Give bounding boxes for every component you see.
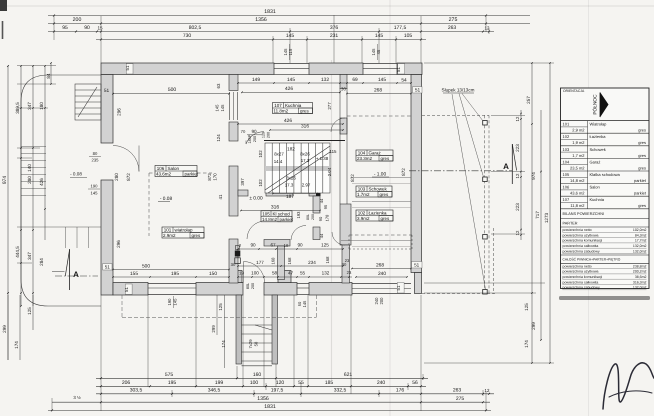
svg-text:8x26: 8x26 (300, 152, 310, 157)
svg-text:103: 103 (358, 187, 366, 192)
svg-text:444,5: 444,5 (15, 246, 20, 258)
right dimension column 257/974/299 (531, 63, 533, 363)
kitchen 187 dim (273, 193, 317, 195)
svg-text:55: 55 (300, 271, 306, 276)
svg-text:132,0m2: 132,0m2 (633, 249, 647, 253)
svg-text:51: 51 (105, 265, 111, 270)
svg-text:200: 200 (253, 136, 257, 142)
section marker A right (511, 144, 513, 184)
svg-text:107: 107 (563, 197, 570, 202)
svg-text:parkiet: parkiet (634, 178, 647, 183)
external entry stairs at bottom with rails (236, 295, 242, 364)
top dimension row 95/90/15/802.5/376/177.5/263/12 (48, 31, 494, 33)
svg-text:284: 284 (39, 258, 44, 266)
right dimension column 12/223/12/223/12 (520, 110, 522, 240)
right extension lines (424, 62, 554, 64)
interior window between salon and kitchen wall (229, 92, 231, 120)
interior wall: kitchen bottom / stair wall y140-143 (264, 140, 345, 142)
svg-text:125: 125 (524, 303, 529, 311)
salon bottom dims 500 / 155 195 150 (113, 269, 229, 271)
svg-text:powierzchnia netto: powierzchnia netto (563, 228, 592, 232)
svg-text:107: 107 (274, 103, 282, 108)
bottom dimension row 1831 (48, 409, 491, 411)
svg-text:102: 102 (258, 150, 263, 158)
svg-text:3 ½: 3 ½ (73, 395, 81, 400)
interior wall: kitchen-hall wall y190-196 with door (238, 190, 248, 196)
svg-text:19: 19 (239, 271, 244, 276)
svg-text:2.9m2: 2.9m2 (163, 233, 176, 238)
svg-text:14.8m2: 14.8m2 (262, 217, 278, 222)
svg-text:132,0m2: 132,0m2 (633, 286, 647, 290)
svg-text:346,5: 346,5 (208, 388, 221, 394)
svg-text:17,7m2: 17,7m2 (635, 239, 647, 243)
svg-text:140: 140 (27, 164, 32, 172)
svg-text:223: 223 (515, 203, 520, 211)
svg-text:A: A (503, 162, 509, 171)
salon top dim 500 (113, 93, 229, 95)
svg-text:gres: gres (380, 192, 390, 197)
svg-text:1273: 1273 (544, 212, 549, 223)
svg-text:234: 234 (308, 260, 316, 265)
wall: top exterior wall segment left (salon/kitchen) (101, 63, 274, 75)
svg-text:872: 872 (207, 173, 212, 181)
svg-text:105: 105 (404, 33, 413, 39)
bottom dimension row 1356 (101, 401, 421, 403)
svg-text:powierzchnia netto: powierzchnia netto (563, 264, 592, 268)
svg-text:100: 100 (251, 271, 259, 276)
svg-text:177,5: 177,5 (394, 25, 407, 31)
right dimension column 717 (540, 110, 542, 340)
svg-text:193: 193 (296, 211, 301, 219)
svg-text:parkiet: parkiet (185, 172, 199, 177)
svg-text:155: 155 (130, 271, 138, 277)
svg-text:50: 50 (254, 341, 259, 346)
svg-text:Wiatrołap: Wiatrołap (590, 122, 608, 127)
svg-text:195: 195 (168, 380, 177, 386)
svg-text:299: 299 (211, 325, 216, 333)
svg-text:120: 120 (276, 380, 285, 386)
svg-text:177: 177 (256, 260, 264, 265)
svg-text:106: 106 (157, 166, 165, 171)
svg-text:19: 19 (284, 243, 289, 248)
room label 103 Schowek (356, 186, 392, 197)
svg-text:95: 95 (323, 204, 328, 209)
svg-text:115: 115 (330, 149, 338, 154)
svg-text:347: 347 (27, 102, 32, 110)
svg-text:2.04: 2.04 (327, 167, 332, 176)
wall: top exterior wall segment middle (kitchen-garage) (309, 63, 363, 75)
svg-text:500: 500 (168, 87, 177, 93)
svg-text:872: 872 (401, 168, 406, 176)
svg-text:45: 45 (376, 49, 381, 54)
svg-text:240: 240 (378, 271, 386, 277)
bottom interior dim rows near entry (238, 248, 343, 250)
svg-text:299: 299 (2, 325, 7, 333)
svg-text:90: 90 (250, 243, 256, 248)
svg-text:200: 200 (251, 283, 255, 289)
svg-text:129: 129 (262, 132, 266, 138)
svg-text:90: 90 (297, 243, 303, 248)
bottom dimension row 303.5/346.5/197.5/332.5/176/263/12 (96, 393, 494, 395)
svg-text:wiatrołap: wiatrołap (175, 228, 194, 233)
svg-text:gres: gres (638, 203, 646, 208)
svg-text:powierzchnia całkowita: powierzchnia całkowita (563, 244, 599, 248)
svg-text:872: 872 (350, 174, 355, 182)
bottom dimension row 206/195/199/100/120/55/186/240/56 (96, 385, 426, 387)
svg-text:47: 47 (288, 271, 294, 276)
svg-text:+ 1.38: + 1.38 (316, 156, 329, 161)
wall: left exterior wall upper segment (101, 75, 113, 144)
svg-text:51: 51 (396, 285, 401, 290)
svg-text:105: 105 (262, 211, 270, 216)
svg-text:23: 23 (347, 270, 352, 275)
dashed rectangle in salon (overhang) (149, 172, 212, 174)
svg-text:1356: 1356 (257, 396, 269, 402)
svg-text:powierzchnia zabudowy: powierzchnia zabudowy (563, 249, 600, 253)
svg-text:- 1.00: - 1.00 (374, 172, 387, 178)
svg-text:426: 426 (39, 178, 44, 186)
svg-text:63: 63 (216, 83, 221, 88)
svg-text:268: 268 (374, 88, 382, 94)
wall: right exterior wall of garage (411, 75, 422, 273)
svg-text:powierzchnia komunikacji: powierzchnia komunikacji (563, 239, 603, 243)
svg-text:BILANS POWIERZCHNI: BILANS POWIERZCHNI (563, 212, 605, 216)
svg-text:A: A (73, 270, 79, 279)
svg-text:56: 56 (412, 380, 418, 386)
room label 101 wiatrolap (162, 227, 204, 238)
svg-text:102: 102 (358, 211, 366, 216)
svg-text:powierzchnia komunikacji: powierzchnia komunikacji (563, 275, 603, 279)
wall: left exterior wall lower segment (101, 180, 113, 295)
svg-text:277: 277 (327, 102, 332, 110)
svg-text:802,5: 802,5 (189, 25, 202, 31)
svg-text:1.7m2: 1.7m2 (357, 192, 370, 197)
window W2 in top wall (145/45) (363, 62, 397, 64)
svg-text:1356: 1356 (255, 17, 267, 23)
svg-text:197,5: 197,5 (271, 388, 284, 394)
svg-text:3.9m2: 3.9m2 (357, 216, 370, 221)
svg-text:12: 12 (515, 116, 520, 121)
window W1 in top wall (145) (274, 62, 309, 64)
svg-text:69: 69 (352, 77, 358, 83)
svg-text:104: 104 (358, 151, 366, 156)
legend table frame (561, 88, 650, 289)
top dimension row 200/1356/275 (48, 23, 530, 25)
interior dim row over kitchen/garage 149/145/132/69/145/54 (238, 82, 411, 84)
terrace paving lines left strip (21, 147, 46, 196)
section line A-A right side dash-dot (409, 170, 512, 172)
svg-text:145: 145 (215, 104, 220, 112)
svg-text:12: 12 (485, 388, 490, 393)
patio door in bottom wall (195) (148, 283, 196, 285)
left 84 dim at top (50, 63, 52, 84)
svg-text:67: 67 (270, 243, 276, 248)
svg-text:Schowek: Schowek (369, 187, 388, 192)
svg-text:426: 426 (284, 118, 292, 124)
svg-text:389,5: 389,5 (15, 102, 20, 114)
svg-text:200: 200 (73, 17, 82, 23)
svg-text:80L: 80L (306, 214, 310, 220)
svg-text:84: 84 (46, 73, 51, 79)
svg-text:14,8 m2: 14,8 m2 (570, 178, 585, 183)
svg-text:124: 124 (216, 134, 221, 142)
svg-text:190: 190 (91, 184, 99, 189)
svg-text:178: 178 (325, 214, 330, 221)
svg-text:CAŁOŚĆ PIWNICA+PARTER+PIĘTRO: CAŁOŚĆ PIWNICA+PARTER+PIĘTRO (563, 258, 621, 262)
svg-text:44: 44 (319, 198, 324, 203)
door swing arc: main entry door bottom (244, 262, 265, 283)
door arc hall left (247, 221, 265, 239)
svg-text:280: 280 (114, 173, 119, 181)
svg-text:51: 51 (124, 287, 129, 292)
svg-text:± 0.00: ± 0.00 (249, 196, 263, 202)
interior wall: T-wall wiatrolap/hall (264, 240, 290, 247)
svg-text:14.4: 14.4 (274, 159, 283, 164)
door arcs near stair top (331, 118, 345, 132)
terrace outline rounded left side (21, 75, 101, 306)
svg-text:gres: gres (638, 165, 646, 170)
room label 104 Garaz (356, 150, 393, 161)
wall pier at entry right (58) (278, 271, 291, 283)
svg-text:12: 12 (515, 173, 520, 178)
svg-text:powierzchnia użytkowa: powierzchnia użytkowa (563, 270, 599, 274)
svg-text:38,6m2: 38,6m2 (635, 275, 647, 279)
svg-text:168: 168 (271, 257, 276, 265)
svg-text:145: 145 (302, 300, 307, 307)
svg-text:Kl schod: Kl schod (273, 211, 291, 216)
svg-text:11,8 m2: 11,8 m2 (570, 203, 585, 208)
svg-text:332,5: 332,5 (334, 388, 347, 394)
svg-text:PARTER: PARTER (563, 221, 578, 225)
svg-text:Salon: Salon (590, 185, 600, 190)
external terrace steps top-left (75, 84, 101, 120)
wall: bottom-left corner wall segment (113, 283, 148, 296)
svg-text:240: 240 (377, 380, 386, 386)
svg-text:102: 102 (563, 134, 570, 139)
interior wall: central vertical wall x229-238 segments (229, 75, 238, 91)
wall: top exterior wall segment right corner (397, 63, 422, 75)
table bottom shadow smudge (559, 296, 650, 300)
svg-text:206: 206 (122, 380, 131, 386)
svg-text:80: 80 (93, 151, 98, 156)
bottom extension lines (100, 295, 102, 411)
svg-text:Klatka schodowa: Klatka schodowa (590, 172, 621, 177)
svg-text:200,2m2: 200,2m2 (633, 270, 647, 274)
svg-text:182: 182 (287, 147, 295, 152)
svg-text:174: 174 (14, 341, 19, 349)
svg-text:145: 145 (220, 104, 225, 112)
interior wall: kitchen/garage divider x340-347 (340, 75, 347, 89)
door swing arc: kitchen door swings up from stair wall (246, 132, 264, 145)
room label 102 Lazienka (356, 210, 393, 221)
svg-text:43,6 m2: 43,6 m2 (570, 191, 585, 196)
svg-text:132: 132 (321, 77, 329, 83)
room label 106 Salon (155, 166, 199, 177)
svg-text:gres: gres (381, 156, 391, 161)
svg-text:Słupek 13/13cm: Słupek 13/13cm (442, 88, 475, 93)
interior wall: schowek/lazienka divider (352, 201, 411, 203)
svg-text:102,0m2: 102,0m2 (633, 228, 647, 232)
svg-text:51: 51 (396, 67, 401, 72)
svg-text:263: 263 (448, 25, 457, 31)
dashed line across garage upper (floor above outline) (347, 115, 411, 117)
svg-text:84,3m2: 84,3m2 (635, 233, 647, 237)
svg-text:296: 296 (116, 240, 121, 248)
svg-text:gres: gres (300, 109, 310, 114)
bottom dimension row 575/160/621 (96, 377, 428, 379)
svg-text:1,9 m2: 1,9 m2 (572, 140, 585, 145)
svg-text:- 0.08: - 0.08 (70, 172, 82, 177)
svg-text:101: 101 (164, 228, 172, 233)
svg-text:145: 145 (91, 191, 99, 196)
svg-text:149: 149 (252, 77, 260, 83)
svg-text:powierzchnia użytkowa: powierzchnia użytkowa (563, 233, 599, 237)
svg-text:parkiet: parkiet (634, 191, 647, 196)
svg-text:51: 51 (415, 88, 421, 94)
wall: bottom wall segment 309-352 (309, 283, 352, 296)
svg-text:106: 106 (563, 185, 570, 190)
svg-text:102: 102 (258, 179, 263, 187)
svg-text:500: 500 (142, 264, 150, 270)
room label 107 Kuchnia (273, 103, 313, 114)
svg-text:200: 200 (267, 132, 271, 138)
section marker A left (69, 249, 71, 290)
svg-text:parkiet: parkiet (280, 217, 294, 222)
svg-text:23.3m2: 23.3m2 (357, 156, 373, 161)
room label 105 Kl schodowa (261, 211, 294, 222)
svg-text:Kuchnia: Kuchnia (590, 197, 605, 202)
svg-text:223: 223 (515, 144, 520, 152)
wall: bottom wall segment under wiatrolap (196-243) (196, 283, 243, 296)
interior wall: lazienka bottom wall (341, 240, 411, 242)
kitchen dims 426/316 (238, 123, 343, 125)
svg-text:316,3m2: 316,3m2 (633, 280, 647, 284)
left dimension column 974 (7, 66, 9, 360)
svg-text:gres: gres (638, 128, 646, 133)
svg-text:12: 12 (515, 230, 520, 235)
right dimension column 1273 (549, 63, 551, 363)
svg-text:8x26: 8x26 (286, 176, 296, 181)
top dimension row 1831 (48, 15, 530, 17)
svg-text:974: 974 (2, 176, 8, 185)
svg-text:299: 299 (531, 322, 536, 330)
svg-text:powierzchnia całkowita: powierzchnia całkowita (563, 280, 599, 284)
svg-text:gres: gres (381, 216, 391, 221)
svg-text:43.6m2: 43.6m2 (156, 172, 172, 177)
svg-text:168: 168 (287, 257, 292, 265)
svg-text:PÓŁNOC: PÓŁNOC (592, 94, 599, 115)
svg-text:268: 268 (376, 263, 384, 269)
svg-text:185: 185 (325, 380, 334, 386)
svg-text:872: 872 (126, 173, 131, 181)
interior wall: garage/schowek divider (352, 177, 411, 179)
svg-text:Łazienka: Łazienka (369, 211, 388, 216)
svg-text:180: 180 (39, 102, 44, 110)
svg-text:125: 125 (218, 303, 223, 311)
room list rows (561, 132, 650, 134)
svg-text:132: 132 (322, 271, 330, 276)
svg-text:200: 200 (311, 214, 315, 220)
svg-text:58: 58 (272, 271, 278, 276)
svg-text:1,7 m2: 1,7 m2 (572, 153, 585, 158)
svg-text:Schowek: Schowek (590, 147, 606, 152)
51 label in left wall bottom (103, 264, 112, 270)
svg-text:1831: 1831 (264, 9, 276, 15)
svg-text:397: 397 (240, 178, 245, 186)
svg-text:powierzchnia zabudowy: powierzchnia zabudowy (563, 286, 600, 290)
svg-text:257: 257 (526, 96, 531, 104)
svg-text:51: 51 (125, 65, 130, 70)
interior wall: hall right wall x313-320 (313, 196, 320, 213)
hall 316 dim (241, 210, 320, 212)
svg-text:104: 104 (563, 159, 570, 164)
svg-text:90: 90 (318, 216, 323, 221)
door swing arc: salon entry from left wall (113, 146, 139, 172)
svg-text:90: 90 (251, 129, 257, 134)
svg-text:Garaż: Garaż (369, 151, 382, 156)
svg-text:100: 100 (250, 380, 259, 386)
svg-text:51: 51 (104, 88, 110, 94)
top extension lines (53, 16, 55, 40)
svg-text:Garaż: Garaż (590, 159, 601, 164)
svg-text:44: 44 (319, 233, 324, 238)
svg-text:125: 125 (321, 243, 329, 248)
handwritten signature bottom right (603, 363, 654, 409)
svg-text:426: 426 (285, 86, 293, 92)
svg-text:gres: gres (638, 153, 646, 158)
svg-text:54: 54 (401, 78, 407, 84)
svg-text:ORIENTACJA: ORIENTACJA (563, 89, 585, 93)
svg-text:101: 101 (563, 122, 570, 127)
svg-text:Kuchnia: Kuchnia (285, 103, 302, 108)
svg-text:132,0m2: 132,0m2 (633, 244, 647, 248)
svg-text:8x27: 8x27 (274, 152, 284, 157)
svg-text:125: 125 (27, 307, 32, 315)
svg-text:150: 150 (209, 271, 217, 277)
svg-text:575: 575 (165, 372, 174, 378)
porch post squares (Slupek 13/13) (483, 121, 488, 126)
svg-text:145: 145 (173, 298, 178, 306)
svg-text:105: 105 (563, 172, 570, 177)
svg-text:103: 103 (563, 147, 570, 152)
svg-text:185P: 185P (248, 134, 252, 143)
svg-text:145: 145 (378, 77, 386, 83)
svg-text:347: 347 (27, 252, 32, 260)
svg-text:11.8m2: 11.8m2 (274, 109, 289, 114)
svg-text:316: 316 (271, 205, 280, 211)
svg-text:70: 70 (241, 129, 246, 134)
svg-text:2.97: 2.97 (302, 183, 311, 188)
svg-text:195: 195 (171, 271, 179, 277)
svg-text:168: 168 (325, 256, 330, 264)
svg-text:51: 51 (414, 263, 420, 268)
svg-text:316: 316 (301, 124, 309, 130)
svg-text:280: 280 (27, 176, 32, 184)
svg-text:176: 176 (396, 388, 405, 394)
door arc hall right (291, 226, 306, 241)
svg-text:Salon: Salon (168, 166, 180, 171)
left bottom dimension columns 299/174/125 (7, 295, 9, 360)
porch dashed outline right with posts (422, 114, 489, 116)
staircase 105: main internal stair with treads (265, 143, 330, 193)
svg-text:41: 41 (218, 194, 223, 199)
chimney block black (235, 251, 241, 257)
svg-text:238,8m2: 238,8m2 (633, 264, 647, 268)
svg-text:730: 730 (183, 33, 192, 39)
svg-text:717: 717 (535, 211, 540, 219)
svg-text:174: 174 (221, 340, 226, 348)
svg-text:115: 115 (288, 48, 293, 55)
